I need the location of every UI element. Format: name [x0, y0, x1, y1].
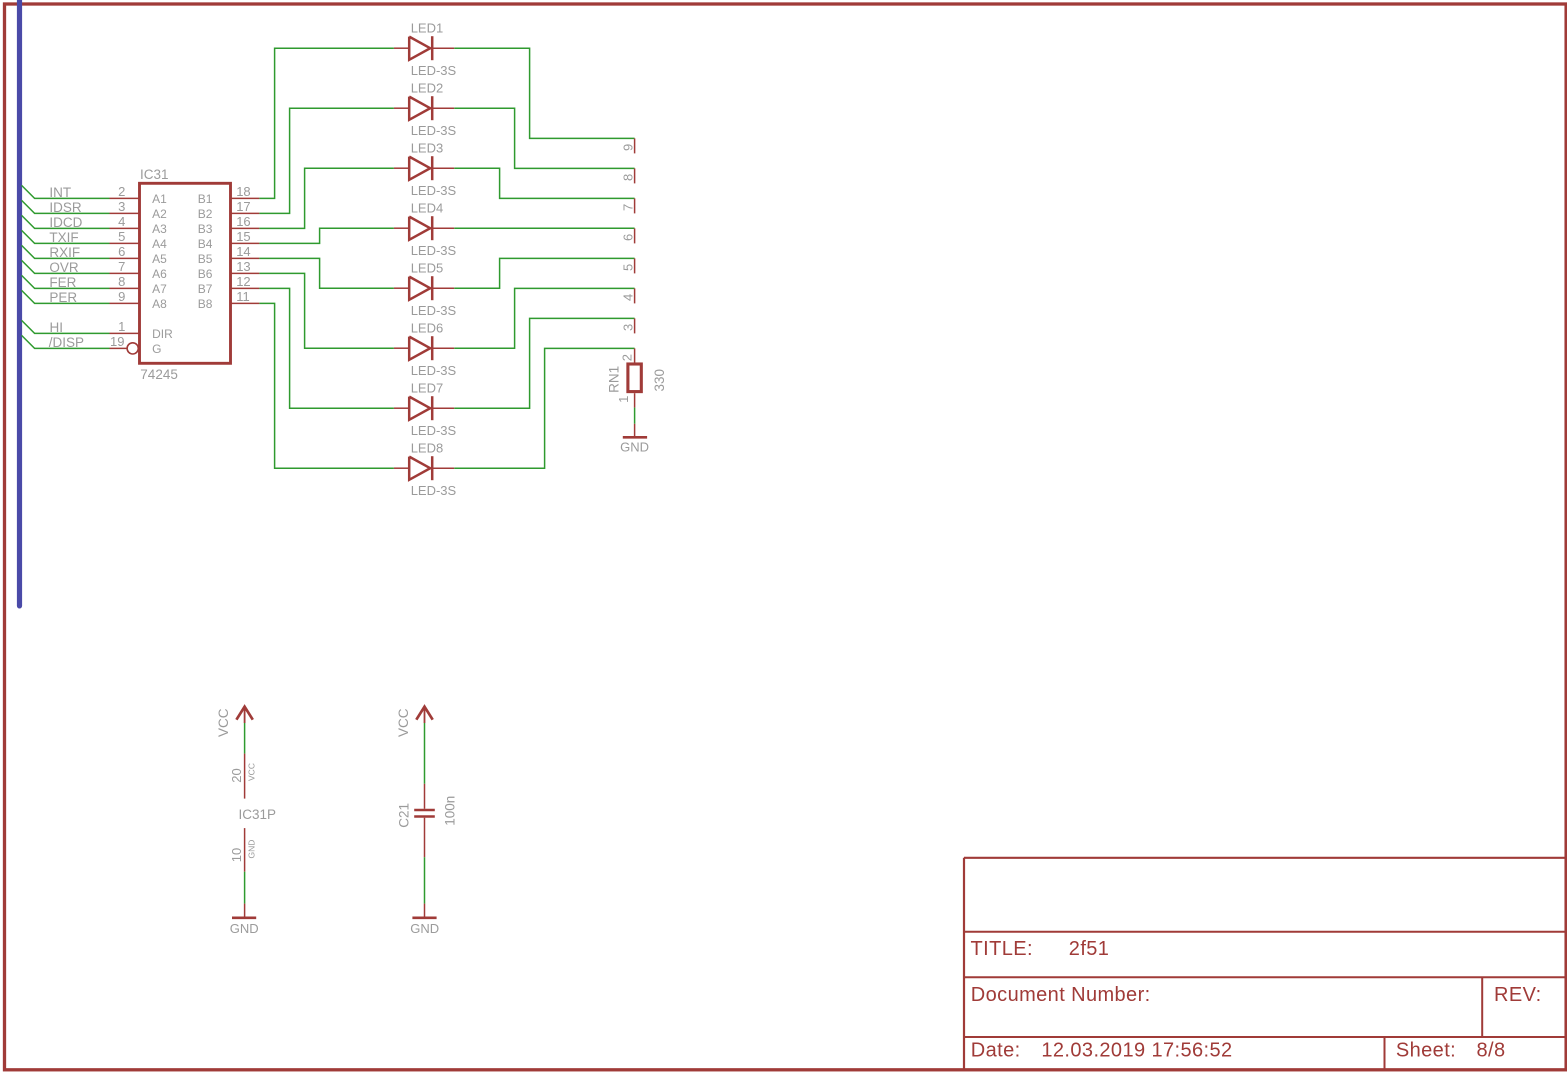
- pin 9 A8: [110, 302, 140, 304]
- svg-text:2: 2: [620, 354, 635, 361]
- pin 5 A4: [110, 242, 140, 244]
- RN1 pin 9: [634, 138, 636, 153]
- svg-text:LED-3S: LED-3S: [411, 483, 457, 498]
- wire LED3 to RN1 pin 7: [454, 168, 634, 198]
- svg-text:3: 3: [620, 324, 635, 331]
- LED LED6: [394, 347, 409, 349]
- svg-text:IDSR: IDSR: [49, 200, 82, 215]
- wire IDCD: [22, 215, 110, 228]
- svg-text:B7: B7: [198, 282, 213, 296]
- svg-text:GND: GND: [620, 439, 649, 454]
- wire LED1 to RN1 pin 9: [454, 48, 634, 138]
- RN1 pin 7: [634, 198, 636, 213]
- svg-text:IC31: IC31: [140, 167, 169, 182]
- svg-text:Sheet:: Sheet:: [1396, 1039, 1456, 1061]
- svg-text:LED5: LED5: [411, 260, 444, 275]
- svg-text:15: 15: [236, 229, 250, 244]
- pin 17 B2: [231, 212, 260, 214]
- svg-text:10: 10: [229, 848, 244, 862]
- svg-text:B8: B8: [198, 297, 213, 311]
- svg-text:LED-3S: LED-3S: [411, 243, 457, 258]
- RN1 pin 2: [634, 348, 636, 363]
- ground GND (RN1): [634, 424, 636, 436]
- svg-text:Date:: Date:: [971, 1039, 1021, 1061]
- wire HI: [22, 320, 110, 333]
- svg-text:1: 1: [118, 319, 125, 334]
- LED LED8: [394, 467, 409, 469]
- LED LED7: [394, 407, 409, 409]
- wire LED5 to RN1 pin 5: [454, 258, 634, 288]
- svg-text:4: 4: [118, 214, 125, 229]
- svg-text:A4: A4: [152, 237, 167, 251]
- svg-text:C21: C21: [397, 803, 412, 828]
- RN1 pin 4: [634, 288, 636, 303]
- svg-text:LED4: LED4: [411, 200, 444, 215]
- wire VCC to IC31P pin 20: [244, 723, 246, 754]
- wire OVR: [22, 260, 110, 273]
- svg-text:GND: GND: [230, 921, 259, 936]
- svg-text:A5: A5: [152, 252, 167, 266]
- pin 8 A7: [110, 287, 140, 289]
- pin 19 G (inverted): [110, 347, 128, 349]
- svg-text:A1: A1: [152, 192, 167, 206]
- RN1 pin 1: [634, 393, 636, 407]
- pin 12 B7: [231, 287, 260, 289]
- svg-text:5: 5: [118, 229, 125, 244]
- pin 14 B5: [231, 257, 260, 259]
- ground GND (C21): [424, 904, 426, 917]
- svg-text:TXIF: TXIF: [49, 230, 78, 245]
- svg-text:4: 4: [620, 294, 635, 301]
- wire INT: [22, 185, 110, 198]
- pin 13 B6: [231, 272, 260, 274]
- svg-text:330: 330: [652, 369, 667, 392]
- pin 2 A1: [110, 197, 140, 199]
- svg-text:GND: GND: [247, 840, 257, 859]
- svg-text:3: 3: [118, 199, 125, 214]
- svg-text:A6: A6: [152, 267, 167, 281]
- capacitor C21: [424, 784, 426, 809]
- svg-text:12: 12: [236, 274, 250, 289]
- svg-text:VCC: VCC: [216, 708, 231, 737]
- wire PER: [22, 290, 110, 303]
- wire B1 to LED1: [259, 48, 394, 198]
- svg-text:OVR: OVR: [49, 260, 79, 275]
- bus: [17, 1, 22, 606]
- svg-text:9: 9: [118, 289, 125, 304]
- IC31P pin 20 VCC: [244, 754, 246, 799]
- pin 11 B8: [231, 302, 260, 304]
- wire IDSR: [22, 200, 110, 213]
- svg-text:8/8: 8/8: [1477, 1039, 1506, 1061]
- LED LED2: [394, 107, 409, 109]
- svg-text:12.03.2019 17:56:52: 12.03.2019 17:56:52: [1041, 1039, 1232, 1061]
- svg-text:VCC: VCC: [247, 763, 257, 781]
- svg-text:G: G: [152, 342, 161, 356]
- ground GND (IC31P): [244, 904, 246, 917]
- wire LED2 to RN1 pin 8: [454, 108, 634, 168]
- svg-text:9: 9: [620, 144, 635, 151]
- IC IC31 74245 body: [140, 183, 231, 363]
- wire TXIF: [22, 230, 110, 243]
- wire /DISP: [22, 335, 110, 348]
- svg-text:A3: A3: [152, 222, 167, 236]
- svg-text:LED-3S: LED-3S: [411, 303, 457, 318]
- svg-text:7: 7: [118, 259, 125, 274]
- svg-text:LED-3S: LED-3S: [411, 63, 457, 78]
- wire B7 to LED7: [259, 288, 394, 408]
- pin 6 A5: [110, 257, 140, 259]
- svg-text:6: 6: [118, 244, 125, 259]
- svg-text:Document Number:: Document Number:: [971, 984, 1151, 1006]
- svg-text:PER: PER: [49, 290, 77, 305]
- svg-text:1: 1: [616, 396, 631, 403]
- svg-text:14: 14: [236, 244, 250, 259]
- pin 3 A2: [110, 212, 140, 214]
- svg-text:LED3: LED3: [411, 140, 444, 155]
- svg-text:B1: B1: [198, 192, 213, 206]
- svg-text:LED-3S: LED-3S: [411, 183, 457, 198]
- svg-text:20: 20: [229, 768, 244, 782]
- svg-text:REV:: REV:: [1494, 984, 1542, 1006]
- RN1 pin 6: [634, 228, 636, 243]
- RN1 pin 8: [634, 168, 636, 183]
- svg-text:/DISP: /DISP: [49, 335, 84, 350]
- svg-text:17: 17: [236, 199, 250, 214]
- wire LED6 to RN1 pin 4: [454, 288, 634, 348]
- RN1 pin 5: [634, 258, 636, 273]
- wire VCC to C21: [424, 723, 426, 784]
- supply VCC (C21): [424, 707, 426, 723]
- pin 16 B3: [231, 227, 260, 229]
- svg-text:8: 8: [118, 274, 125, 289]
- svg-text:8: 8: [620, 174, 635, 181]
- LED LED3: [394, 167, 409, 169]
- svg-text:VCC: VCC: [396, 708, 411, 737]
- pin 15 B4: [231, 242, 260, 244]
- svg-text:LED-3S: LED-3S: [411, 423, 457, 438]
- svg-text:LED2: LED2: [411, 80, 444, 95]
- wire RXIF: [22, 245, 110, 258]
- wire B5 to LED5: [259, 258, 394, 288]
- svg-text:LED1: LED1: [411, 20, 444, 35]
- title block: [964, 858, 1565, 1070]
- wire B4 to LED4: [259, 228, 394, 243]
- svg-text:19: 19: [110, 334, 124, 349]
- wire B6 to LED6: [259, 273, 394, 348]
- svg-text:13: 13: [236, 259, 250, 274]
- svg-text:LED8: LED8: [411, 440, 444, 455]
- svg-text:IDCD: IDCD: [49, 215, 82, 230]
- svg-text:LED-3S: LED-3S: [411, 123, 457, 138]
- svg-text:DIR: DIR: [152, 327, 173, 341]
- svg-text:LED7: LED7: [411, 380, 444, 395]
- svg-text:IC31P: IC31P: [239, 807, 277, 822]
- svg-text:6: 6: [620, 234, 635, 241]
- svg-text:18: 18: [236, 184, 250, 199]
- svg-text:B6: B6: [198, 267, 213, 281]
- wire C21 to GND: [424, 857, 426, 903]
- wire FER: [22, 275, 110, 288]
- svg-text:74245: 74245: [140, 367, 178, 382]
- title block texts: [971, 938, 1542, 1062]
- svg-text:2f51: 2f51: [1069, 938, 1110, 960]
- pin 18 B1: [231, 197, 260, 199]
- wire LED4 to RN1 pin 6: [454, 227, 634, 229]
- svg-text:7: 7: [620, 204, 635, 211]
- svg-text:5: 5: [620, 264, 635, 271]
- svg-text:LED-3S: LED-3S: [411, 363, 457, 378]
- svg-text:16: 16: [236, 214, 250, 229]
- svg-text:100n: 100n: [443, 796, 458, 826]
- wire B2 to LED2: [259, 108, 394, 213]
- wire B8 to LED8: [259, 303, 394, 468]
- svg-text:A2: A2: [152, 207, 167, 221]
- svg-text:A8: A8: [152, 297, 167, 311]
- svg-text:FER: FER: [49, 275, 76, 290]
- supply VCC (IC31P): [244, 707, 246, 723]
- LED LED5: [394, 287, 409, 289]
- wire RN1 pin1 to GND: [634, 408, 636, 424]
- pin 1 DIR: [110, 332, 140, 334]
- wire B3 to LED3: [259, 168, 394, 228]
- LED LED1: [394, 47, 409, 49]
- svg-text:TITLE:: TITLE:: [971, 938, 1033, 960]
- svg-text:B5: B5: [198, 252, 213, 266]
- wire LED7 to RN1 pin 3: [454, 318, 634, 408]
- svg-text:11: 11: [236, 289, 250, 304]
- svg-text:B3: B3: [198, 222, 213, 236]
- IC31P pin 10 GND: [244, 828, 246, 872]
- pin 7 A6: [110, 272, 140, 274]
- LED LED4: [394, 227, 409, 229]
- RN1 pin 3: [634, 318, 636, 333]
- svg-text:RXIF: RXIF: [49, 245, 80, 260]
- svg-text:A7: A7: [152, 282, 167, 296]
- svg-text:HI: HI: [50, 320, 64, 335]
- svg-text:B4: B4: [198, 237, 213, 251]
- svg-text:GND: GND: [410, 921, 439, 936]
- svg-text:RN1: RN1: [607, 366, 622, 393]
- resistor network RN1 body: [628, 364, 641, 392]
- wire LED8 to RN1 pin 2: [454, 348, 634, 468]
- svg-text:B2: B2: [198, 207, 213, 221]
- pin 4 A3: [110, 227, 140, 229]
- wire IC31P pin 10 to GND: [244, 872, 246, 904]
- svg-text:2: 2: [118, 184, 125, 199]
- svg-text:INT: INT: [49, 185, 71, 200]
- svg-text:LED6: LED6: [411, 320, 444, 335]
